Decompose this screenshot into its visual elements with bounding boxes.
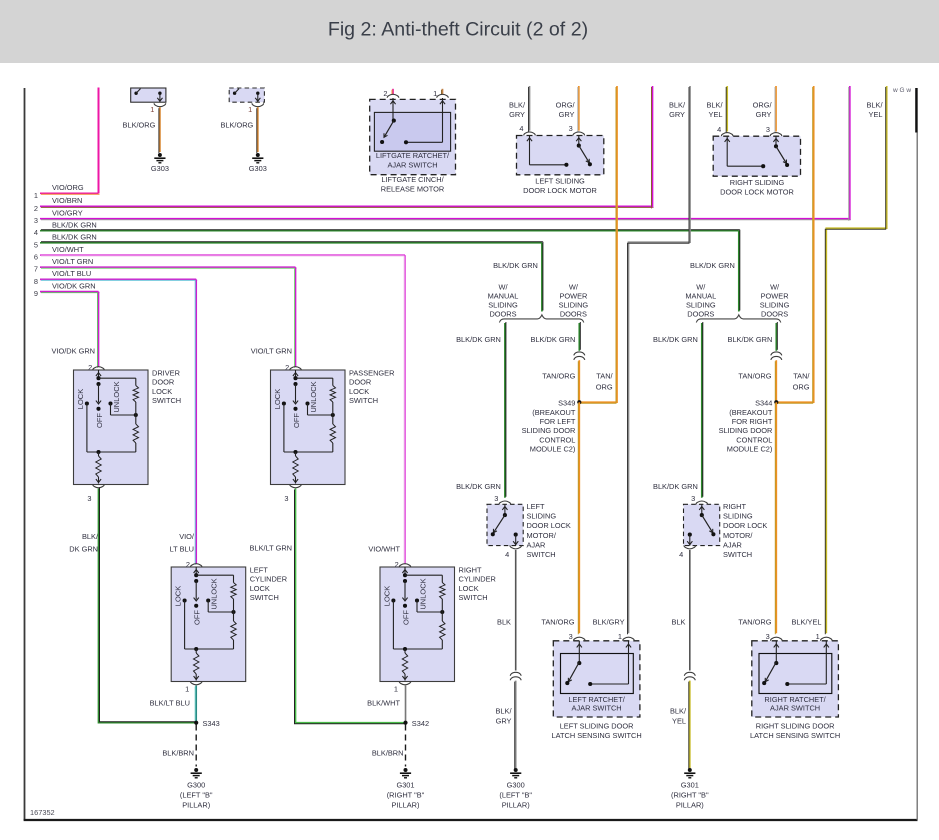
svg-text:G301: G301 [681,781,699,790]
svg-text:RELEASE MOTOR: RELEASE MOTOR [381,184,445,193]
svg-text:LOCK: LOCK [76,389,85,409]
svg-text:LOCK: LOCK [250,584,270,593]
svg-text:DOORS: DOORS [560,309,587,318]
svg-text:BLK/: BLK/ [670,707,687,716]
liftgate ratchet/ajar switch inner box [374,112,450,151]
right sliding door lock motor pin 3 connector [770,133,782,137]
svg-text:BLK/ORG: BLK/ORG [220,121,253,130]
svg-text:VIO/LT GRN: VIO/LT GRN [52,257,93,266]
frame bottom border [24,819,918,821]
svg-text:VIO/DK GRN: VIO/DK GRN [52,281,96,290]
instrument switch B box (partial) [229,88,264,102]
svg-text:BLK/BRN: BLK/BRN [372,749,404,758]
ground G301 right [404,768,408,772]
right ratchet/ajar switch pin 1 connector [821,637,833,641]
liftgate pin 2 connector [387,94,399,98]
svg-text:BLK/YEL: BLK/YEL [792,618,822,627]
svg-text:LATCH SENSING SWITCH: LATCH SENSING SWITCH [551,731,641,740]
svg-text:S349: S349 [558,398,575,407]
svg-text:SWITCH: SWITCH [459,593,488,602]
svg-text:DOOR LOCK MOTOR: DOOR LOCK MOTOR [523,186,597,195]
svg-text:W/: W/ [498,282,508,291]
svg-text:1: 1 [150,105,154,114]
svg-text:BLK/LT BLU: BLK/LT BLU [150,699,190,708]
svg-text:BLK/: BLK/ [669,101,686,110]
svg-text:2: 2 [285,363,289,372]
svg-text:POWER: POWER [761,291,789,300]
wire BLK/ORG from instrument switch A to G303 [159,107,161,152]
wire TAN/ORG below connector [578,360,580,402]
passenger door lock switch internals [295,370,297,378]
svg-text:2: 2 [395,560,399,569]
svg-text:VIO/LT BLU: VIO/LT BLU [52,269,91,278]
instrument switch A pin 1 connector [154,103,166,107]
svg-text:BLK/GRY: BLK/GRY [593,618,625,627]
driver door lock switch box [74,370,149,485]
svg-text:3: 3 [284,494,288,503]
svg-text:167352: 167352 [30,808,55,817]
svg-text:2: 2 [186,560,190,569]
svg-text:BLK/DK GRN: BLK/DK GRN [52,221,97,230]
svg-text:(BREAKOUT: (BREAKOUT [532,408,576,417]
svg-text:VIO/BRN: VIO/BRN [52,196,82,205]
svg-text:DOORS: DOORS [687,309,714,318]
splice S342 [403,721,407,725]
svg-text:SWITCH: SWITCH [527,550,556,559]
svg-text:GRY: GRY [509,110,525,119]
svg-text:RIGHT RATCHET/: RIGHT RATCHET/ [764,695,826,704]
svg-text:UNLOCK: UNLOCK [309,381,318,412]
svg-text:YEL: YEL [709,110,723,119]
wire BLK right chain [689,550,691,671]
svg-text:BLK/DK GRN: BLK/DK GRN [493,261,538,270]
svg-text:1: 1 [185,685,189,694]
svg-text:OFF: OFF [292,413,301,428]
frame right border [916,88,918,820]
svg-text:3: 3 [87,494,91,503]
svg-text:4: 4 [505,550,509,559]
left sliding door lock motor internals [529,136,531,165]
wire BLK/BRN dashed S342 to G301 [405,725,407,767]
wire drop row7 VIO/LT GRN to passenger door lock switch [295,267,297,366]
svg-text:(LEFT "B": (LEFT "B" [180,791,213,800]
ground G300 center [514,768,518,772]
svg-text:3: 3 [569,632,573,641]
svg-text:PILLAR): PILLAR) [502,801,530,810]
svg-text:LT BLU: LT BLU [170,545,194,554]
wire TAN/ORG S344 to right ratchet pin 3 [775,402,777,633]
right ratchet/ajar switch internals [775,641,777,663]
instrument switch A contact dots [134,92,137,95]
svg-text:OFF: OFF [402,610,411,625]
wire row 3 VIO/GRY [40,218,850,220]
left cylinder lock switch pin 2 connector [190,564,202,568]
svg-text:TAN/: TAN/ [793,371,810,380]
svg-text:UNLOCK: UNLOCK [112,381,121,412]
svg-text:BLK/DK GRN: BLK/DK GRN [531,335,576,344]
left ratchet/ajar switch outer box [553,641,640,717]
svg-text:BLK/DK GRN: BLK/DK GRN [653,482,698,491]
svg-text:PILLAR): PILLAR) [676,801,704,810]
wire row 8 VIO/LT BLU [40,278,196,280]
wire BLK/DK GRN manual leg [504,323,506,498]
svg-text:AJAR: AJAR [527,540,546,549]
svg-text:DRIVER: DRIVER [152,369,180,378]
left sliding door lock motor/ajar switch pin 4 connector [510,545,522,549]
svg-text:S343: S343 [203,719,220,728]
svg-text:ORG/: ORG/ [556,101,576,110]
svg-text:CYLINDER: CYLINDER [459,575,496,584]
svg-text:VIO/: VIO/ [179,532,195,541]
svg-text:DOOR LOCK: DOOR LOCK [723,521,767,530]
svg-text:MODULE C2): MODULE C2) [530,445,576,454]
wire drop row9 VIO/DK GRN to driver door lock switch [98,292,100,367]
svg-text:DOOR: DOOR [349,378,371,387]
svg-text:LOCK: LOCK [273,389,282,409]
svg-text:CYLINDER: CYLINDER [250,575,287,584]
wire stub pin 2 VIO [392,89,394,94]
inline connector on power leg [574,352,585,356]
wire ORG/GRY to right sliding door lock motor pin 3 [775,86,777,132]
svg-text:PILLAR): PILLAR) [392,801,420,810]
svg-text:GRY: GRY [559,110,575,119]
left ratchet/ajar switch pin 3 connector [574,637,586,641]
wire BLK/DK GRN driver pin 3 to S343 [99,489,197,723]
svg-text:DOORS: DOORS [489,309,516,318]
svg-text:DOOR LOCK MOTOR: DOOR LOCK MOTOR [720,187,794,196]
wire TAN/ORG below connector [775,360,777,402]
svg-text:SLIDING: SLIDING [760,300,790,309]
svg-text:W/: W/ [569,282,579,291]
wire riser row2 VIO/BRN [652,86,654,207]
svg-text:TAN/ORG: TAN/ORG [738,618,771,627]
wire BLK/DK GRN power leg [775,323,777,351]
driver door lock switch pin 2 connector [93,367,105,371]
svg-text:PASSENGER: PASSENGER [349,369,394,378]
svg-text:BLK/: BLK/ [706,101,723,110]
left ratchet/ajar switch inner box [561,654,634,694]
right ratchet/ajar switch outer box [752,641,839,717]
svg-text:1: 1 [394,685,398,694]
wire BLK/DK GRN power leg [578,323,580,351]
svg-text:DOORS: DOORS [761,309,788,318]
wire row 6 VIO/WHT [40,254,405,256]
right cylinder lock switch pin 1 connector [399,681,411,685]
splice S343 [194,721,198,725]
svg-text:TAN/ORG: TAN/ORG [542,371,575,380]
svg-text:UNLOCK: UNLOCK [419,578,428,609]
svg-text:SWITCH: SWITCH [723,550,752,559]
svg-text:BLK/: BLK/ [82,532,99,541]
instrument switch B arrow to pin 1 [257,93,259,101]
passenger door lock switch pin 2 connector [290,367,302,371]
wire BLK/BRN dashed S343 to G300 [195,725,197,767]
inline connector right chain [684,672,695,676]
svg-text:VIO/GRY: VIO/GRY [52,209,83,218]
svg-text:BLK/DK GRN: BLK/DK GRN [690,261,735,270]
svg-text:3: 3 [766,632,770,641]
wire drop row6 VIO/WHT to right cylinder lock switch [404,255,406,563]
svg-text:FOR RIGHT: FOR RIGHT [732,417,773,426]
passenger door lock switch pin 3 connector [290,484,302,488]
svg-text:9: 9 [34,289,38,298]
svg-text:VIO/LT GRN: VIO/LT GRN [251,347,292,356]
svg-text:3: 3 [34,216,38,225]
svg-text:3: 3 [691,494,695,503]
wire TAN/ORG from top to S344 [776,86,813,402]
driver door lock switch pin 3 connector [93,484,105,488]
svg-text:(RIGHT "B": (RIGHT "B" [671,791,709,800]
svg-text:BLK/DK GRN: BLK/DK GRN [456,482,501,491]
svg-text:5: 5 [34,240,38,249]
svg-text:MODULE C2): MODULE C2) [727,445,773,454]
right sliding door lock motor/ajar switch pin 4 connector [684,545,696,549]
svg-text:BLK/DK GRN: BLK/DK GRN [653,335,698,344]
svg-text:2: 2 [383,89,387,98]
svg-text:AJAR: AJAR [723,540,742,549]
wire row 4 BLK/DK GRN [40,230,739,232]
left sliding door lock motor/ajar switch pin 3 connector [499,501,511,505]
wire BLK stub top right [915,88,917,133]
svg-text:3: 3 [494,494,498,503]
svg-text:DOOR: DOOR [152,378,174,387]
svg-text:BLK/: BLK/ [495,707,512,716]
svg-text:BLK/BRN: BLK/BRN [162,749,194,758]
svg-text:BLK/LT GRN: BLK/LT GRN [250,544,292,553]
instrument switch B contact dots [233,92,236,95]
svg-text:4: 4 [679,550,683,559]
frame left border [24,88,26,820]
svg-text:SLIDING DOOR: SLIDING DOOR [719,426,773,435]
svg-text:YEL: YEL [869,110,883,119]
svg-text:TAN/: TAN/ [596,371,613,380]
svg-text:ORG: ORG [596,382,613,391]
instrument switch A arrow to pin 1 [159,93,161,101]
svg-text:(LEFT "B": (LEFT "B" [499,791,532,800]
right sliding door lock motor internals [726,136,728,166]
svg-text:MANUAL: MANUAL [685,291,716,300]
svg-text:BLK/ORG: BLK/ORG [123,121,156,130]
wire BLK/WHT right cylinder pin 1 to S342 [405,686,407,723]
svg-text:S342: S342 [412,719,429,728]
wire row 7 VIO/LT GRN [40,266,296,268]
svg-text:BLK: BLK [497,618,511,627]
liftgate switch internals [392,98,394,121]
wire BLK/YEL to right sliding door lock motor pin 4 [726,86,728,132]
title bar [0,0,939,63]
wire row 5 BLK/DK GRN [40,242,542,244]
instrument switch A box (partial) [131,88,166,102]
brace [696,315,781,323]
ground G300 left [194,768,198,772]
wire BLK/GRY to left sliding door lock motor pin 4 [529,86,531,131]
svg-text:(RIGHT "B": (RIGHT "B" [387,791,425,800]
svg-text:LATCH SENSING SWITCH: LATCH SENSING SWITCH [750,731,840,740]
svg-text:ORG: ORG [793,382,810,391]
svg-text:CONTROL: CONTROL [539,435,575,444]
svg-text:SLIDING: SLIDING [723,512,753,521]
svg-text:G301: G301 [396,781,414,790]
wire drop row5 BLK/DK GRN to left brace [541,243,543,312]
svg-text:3: 3 [569,124,573,133]
brace [499,315,583,323]
svg-text:SLIDING: SLIDING [559,300,589,309]
wire TAN/ORG S349 to left ratchet pin 3 [578,402,580,633]
svg-text:3: 3 [766,125,770,134]
svg-text:MOTOR/: MOTOR/ [723,531,753,540]
svg-text:SLIDING: SLIDING [488,300,518,309]
left cylinder lock switch box [171,567,246,682]
right ratchet/ajar switch inner box [759,654,832,694]
svg-text:RIGHT: RIGHT [723,502,746,511]
wire BLK/ORG from instrument switch B to G303 [257,107,259,152]
wire ORG/GRY to left sliding door lock motor pin 3 [578,86,580,131]
left sliding door lock motor box [517,136,604,175]
wire BLK/DK GRN manual leg [701,323,703,498]
svg-text:LOCK: LOCK [174,586,183,606]
svg-text:LEFT SLIDING: LEFT SLIDING [535,176,585,185]
wire BLK/GRY to G300 [515,681,517,768]
left sliding door lock motor/ajar switch box [487,504,523,545]
svg-text:1: 1 [618,632,622,641]
wire BLK/YEL to G301 [689,681,691,768]
svg-text:VIO/ORG: VIO/ORG [52,183,84,192]
svg-text:SWITCH: SWITCH [349,396,378,405]
svg-text:4: 4 [34,228,38,237]
left ratchet/ajar switch internals [578,641,580,663]
right cylinder lock switch internals [404,567,406,575]
wire stub pin 1 ORG [442,89,444,94]
inline connector left chain [510,672,521,676]
wire riser row3 VIO/GRY [849,86,851,220]
svg-text:Fig 2: Anti-theft Circuit (2 o: Fig 2: Anti-theft Circuit (2 of 2) [328,19,588,41]
svg-text:LIFTGATE CINCH/: LIFTGATE CINCH/ [381,175,444,184]
svg-text:G300: G300 [187,781,205,790]
wire BLK/LT GRN passenger pin 3 to S342 [296,489,406,723]
svg-text:RIGHT: RIGHT [459,566,482,575]
left ratchet/ajar switch pin 1 connector [623,637,635,641]
svg-text:GRY: GRY [496,717,512,726]
svg-text:LOCK: LOCK [152,387,172,396]
svg-text:PILLAR): PILLAR) [182,801,210,810]
svg-text:ORG/: ORG/ [753,101,773,110]
svg-text:VIO/DK GRN: VIO/DK GRN [51,347,95,356]
svg-text:DK GRN: DK GRN [69,545,98,554]
svg-text:4: 4 [519,124,523,133]
wire BLK left chain [515,550,517,671]
svg-text:LEFT: LEFT [527,502,546,511]
svg-text:VIO/WHT: VIO/WHT [52,245,84,254]
svg-text:G300: G300 [507,781,525,790]
svg-text:BLK/DK GRN: BLK/DK GRN [52,233,97,242]
wire BLK/YEL from top jog to right ratchet pin 1 [826,86,886,633]
ground G303 under instrument switch A [158,153,162,157]
svg-text:W/: W/ [696,282,706,291]
svg-text:W/: W/ [770,282,780,291]
svg-text:LEFT: LEFT [250,566,269,575]
right sliding door lock motor/ajar switch box [684,504,720,545]
svg-text:TAN/ORG: TAN/ORG [738,371,771,380]
left sliding door lock motor/ajar switch internals [504,504,506,515]
wire row 1 VIO/ORG [40,192,99,194]
right cylinder lock switch box [380,567,455,682]
wire row 9 VIO/DK GRN [40,291,99,293]
svg-text:OFF: OFF [193,610,202,625]
wire BLK/LT BLU left cylinder pin 1 to S343 [195,686,197,723]
svg-text:SLIDING DOOR: SLIDING DOOR [522,426,576,435]
svg-text:LEFT SLIDING DOOR: LEFT SLIDING DOOR [560,721,634,730]
svg-text:4: 4 [717,125,721,134]
right ratchet/ajar switch pin 3 connector [771,637,783,641]
inline connector on power leg [771,352,782,356]
svg-text:GRY: GRY [756,110,772,119]
wire drop row8 VIO/LT BLU to left cylinder lock switch [195,279,197,563]
svg-text:MANUAL: MANUAL [488,291,519,300]
svg-text:MOTOR/: MOTOR/ [527,531,557,540]
liftgate cinch/release motor outer box [370,99,456,174]
svg-text:AJAR SWITCH: AJAR SWITCH [770,704,820,713]
wire drop row4 BLK/DK GRN to right brace [738,231,740,312]
svg-text:7: 7 [34,265,38,274]
svg-text:RIGHT SLIDING: RIGHT SLIDING [730,178,785,187]
driver door lock switch internals [98,370,100,378]
svg-text:LOCK: LOCK [459,584,479,593]
svg-text:1: 1 [34,191,38,200]
passenger door lock switch box [271,370,346,485]
svg-text:VIO/WHT: VIO/WHT [368,545,400,554]
svg-text:CONTROL: CONTROL [736,435,772,444]
svg-text:AJAR SWITCH: AJAR SWITCH [572,704,622,713]
svg-text:SWITCH: SWITCH [152,396,181,405]
svg-text:AJAR SWITCH: AJAR SWITCH [387,161,437,170]
svg-text:S344: S344 [755,398,772,407]
splice S344 [774,400,778,404]
svg-text:LOCK: LOCK [349,387,369,396]
svg-text:UNLOCK: UNLOCK [210,578,219,609]
svg-text:LIFTGATE RATCHET/: LIFTGATE RATCHET/ [376,151,450,160]
svg-text:w G w: w G w [892,87,911,94]
svg-text:G303: G303 [249,164,267,173]
svg-text:RIGHT SLIDING DOOR: RIGHT SLIDING DOOR [756,721,835,730]
right sliding door lock motor/ajar switch internals [701,504,703,515]
svg-text:BLK/: BLK/ [866,101,883,110]
wire row 2 VIO/BRN [40,205,653,207]
splice S349 [577,400,581,404]
svg-text:YEL: YEL [672,717,686,726]
svg-text:SWITCH: SWITCH [250,593,279,602]
svg-text:TAN/ORG: TAN/ORG [541,618,574,627]
svg-text:G303: G303 [151,164,169,173]
left cylinder lock switch pin 1 connector [190,681,202,685]
svg-text:(BREAKOUT: (BREAKOUT [729,408,773,417]
wire TAN/ORG from top to S349 [579,86,617,402]
instrument switch B pin 1 connector [252,103,264,107]
left cylinder lock switch internals [195,567,197,575]
svg-text:1: 1 [433,89,437,98]
svg-text:BLK: BLK [672,618,686,627]
svg-text:POWER: POWER [559,291,587,300]
wire BLK/GRY from top jog to left ratchet pin 1 [629,86,691,633]
svg-text:SLIDING: SLIDING [686,300,716,309]
svg-text:2: 2 [34,204,38,213]
right cylinder lock switch pin 2 connector [399,564,411,568]
svg-text:LOCK: LOCK [383,586,392,606]
svg-text:1: 1 [816,632,820,641]
svg-text:1: 1 [248,105,252,114]
svg-text:8: 8 [34,277,38,286]
svg-text:OFF: OFF [95,413,104,428]
svg-text:BLK/: BLK/ [509,101,526,110]
